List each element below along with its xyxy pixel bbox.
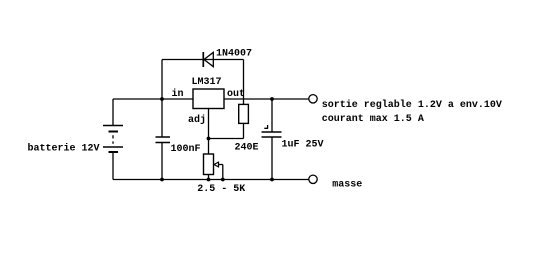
diode D1 1N4007 cathode bar [202, 52, 204, 67]
potentiometer P1 wiper vertical [222, 165, 224, 180]
svg-text:sortie reglable 1.2V a env.10V: sortie reglable 1.2V a env.10V [322, 99, 502, 111]
capacitor C2 plus sign [264, 125, 268, 129]
svg-text:courant max 1.5 A: courant max 1.5 A [322, 114, 424, 125]
resistor R1 240E body [239, 104, 249, 123]
svg-text:masse: masse [332, 180, 362, 191]
battery B1 dashed cells link [112, 135, 114, 144]
battery B1 plate short bottom [109, 151, 119, 153]
svg-text:2.5 - 5K: 2.5 - 5K [197, 184, 245, 195]
battery B1 plate long top [103, 125, 123, 127]
potentiometer P1 body [204, 154, 214, 175]
wire diode loop left vertical [161, 60, 163, 100]
svg-text:in: in [172, 88, 184, 100]
wire pot bottom [208, 175, 210, 180]
wire top rail (diode loop) [162, 59, 244, 61]
wire adj pin vertical [208, 109, 210, 155]
capacitor C2 1uF plate bottom [262, 136, 282, 138]
capacitor C2 1uF plate top [262, 131, 282, 133]
node junction dot input/diode/100nF [160, 97, 164, 101]
wire input rail [113, 98, 193, 100]
battery B1 plate long bottom [103, 146, 123, 148]
wire resistor bottom to adj junction vertical [243, 123, 245, 138]
potentiometer P1 wiper arrow [214, 162, 219, 167]
wire diode loop right vertical [243, 60, 245, 105]
capacitor C1 100nF plate bottom [156, 142, 171, 144]
terminal masse circle [309, 175, 317, 183]
wire output rail [224, 98, 309, 100]
node junction dot pot bottom [207, 178, 211, 182]
battery B1 top wire [112, 99, 114, 126]
svg-text:LM317: LM317 [192, 77, 222, 88]
diode D1 1N4007 triangle [204, 52, 213, 66]
terminal sortie circle [309, 95, 317, 103]
svg-text:adj: adj [188, 114, 206, 126]
capacitor C1 100nF bottom wire [161, 143, 163, 180]
battery B1 plate short top [109, 131, 119, 133]
battery B1 bottom wire [112, 152, 114, 180]
svg-text:1N4007: 1N4007 [216, 49, 252, 60]
capacitor C1 100nF plate top [156, 136, 171, 138]
op-amp U1 LM317 box [193, 89, 224, 109]
wire ground rail [113, 179, 309, 181]
capacitor C2 1uF top wire [271, 99, 273, 132]
node junction dot wiper bottom [221, 178, 225, 182]
svg-text:1uF 25V: 1uF 25V [282, 140, 324, 151]
node junction dot output/1uF [270, 97, 274, 101]
wire resistor bottom to adj junction horizontal [209, 138, 244, 140]
capacitor C1 100nF top wire [161, 99, 163, 137]
node junction dot 1uF bottom [270, 178, 274, 182]
potentiometer P1 wiper tail horizontal [219, 164, 223, 166]
svg-text:batterie 12V: batterie 12V [28, 143, 100, 155]
node junction dot 100nF bottom [160, 178, 164, 182]
svg-text:240E: 240E [235, 143, 259, 154]
node junction dot adj [207, 137, 211, 141]
svg-text:100nF: 100nF [171, 144, 201, 155]
capacitor C2 1uF bottom wire [271, 137, 273, 180]
